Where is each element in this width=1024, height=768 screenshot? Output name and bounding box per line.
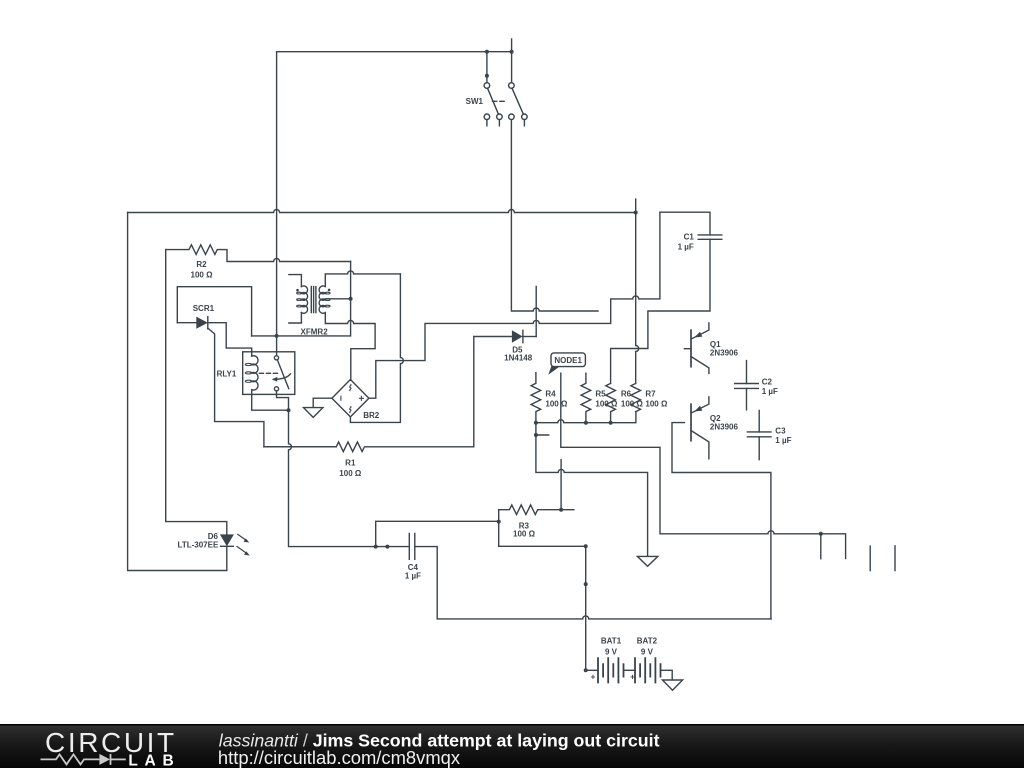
svg-text:XFMR2: XFMR2 (301, 328, 329, 337)
svg-text:100 Ω: 100 Ω (545, 400, 568, 409)
svg-text:1 µF: 1 µF (405, 572, 421, 581)
svg-text:R6: R6 (621, 389, 632, 398)
svg-text:1 µF: 1 µF (775, 436, 791, 445)
svg-text:R1: R1 (345, 459, 356, 468)
svg-text:C4: C4 (408, 563, 419, 572)
svg-text:+: + (630, 673, 635, 682)
svg-text:+: + (591, 673, 596, 682)
svg-text:R4: R4 (545, 389, 556, 398)
svg-text:9 V: 9 V (605, 648, 618, 657)
svg-text:BAT1: BAT1 (601, 637, 622, 646)
svg-text:100 Ω: 100 Ω (513, 530, 536, 539)
svg-text:100 Ω: 100 Ω (191, 270, 214, 279)
svg-text:RLY1: RLY1 (217, 369, 237, 378)
svg-text:http://circuitlab.com/cm8vmqx: http://circuitlab.com/cm8vmqx (218, 747, 460, 768)
svg-text:C3: C3 (775, 426, 786, 435)
svg-text:SCR1: SCR1 (193, 304, 215, 313)
svg-text:R7: R7 (645, 389, 656, 398)
svg-text:100 Ω: 100 Ω (595, 400, 618, 409)
svg-text:1 µF: 1 µF (678, 243, 694, 252)
svg-text:1N4148: 1N4148 (504, 353, 533, 362)
svg-text:100 Ω: 100 Ω (621, 400, 644, 409)
svg-text:Q1: Q1 (710, 340, 721, 349)
svg-text:LAB: LAB (128, 752, 180, 768)
svg-text:R5: R5 (595, 389, 606, 398)
svg-text:2N3906: 2N3906 (710, 349, 739, 358)
svg-text:R2: R2 (196, 260, 207, 269)
svg-text:BAT2: BAT2 (637, 637, 658, 646)
svg-text:NODE1: NODE1 (554, 356, 582, 365)
svg-text:100 Ω: 100 Ω (339, 469, 362, 478)
svg-text:Q2: Q2 (710, 414, 721, 423)
svg-text:LTL-307EE: LTL-307EE (178, 540, 219, 549)
svg-text:SW1: SW1 (466, 97, 484, 106)
svg-text:C2: C2 (762, 378, 773, 387)
svg-text:9 V: 9 V (641, 648, 654, 657)
svg-text:BR2: BR2 (363, 411, 380, 420)
svg-text:C1: C1 (684, 232, 695, 241)
svg-text:2N3906: 2N3906 (710, 423, 739, 432)
svg-text:1 µF: 1 µF (762, 387, 778, 396)
svg-text:100 Ω: 100 Ω (645, 400, 668, 409)
